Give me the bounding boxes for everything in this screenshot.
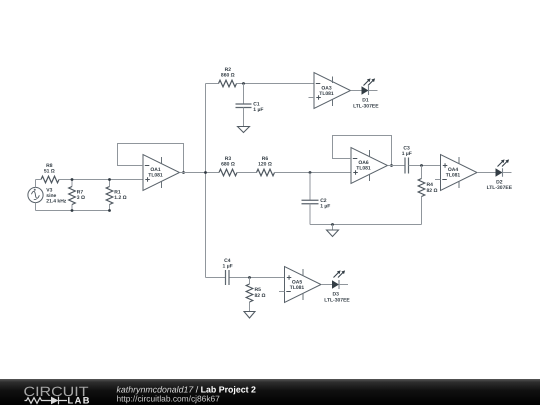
svg-text:1.2 Ω: 1.2 Ω bbox=[114, 195, 126, 201]
node OA6 output bbox=[390, 164, 393, 167]
D3 label bbox=[324, 292, 350, 304]
node C4/R5 bbox=[248, 276, 251, 279]
ground under R5 bbox=[244, 312, 255, 319]
op-amp OA4 bbox=[435, 155, 477, 191]
svg-text:TL081: TL081 bbox=[319, 91, 334, 97]
logo resistor zigzag bbox=[25, 398, 52, 404]
resistor R2 bbox=[219, 80, 237, 87]
node bbox=[71, 178, 74, 181]
OA4 label bbox=[446, 167, 461, 179]
wire OA1 feedback loop bbox=[118, 144, 184, 173]
R4 label bbox=[427, 182, 438, 194]
resistor R3 bbox=[219, 169, 237, 176]
wire OA6 feedback loop bbox=[333, 136, 392, 166]
svg-text:TL081: TL081 bbox=[290, 285, 305, 291]
svg-text:TL081: TL081 bbox=[446, 173, 461, 179]
wire top branch bbox=[206, 83, 315, 85]
wire bottom rail left bbox=[36, 210, 110, 212]
R3 label bbox=[221, 156, 235, 168]
ground under C2 rail bbox=[327, 225, 339, 237]
svg-text:LTL-307EE: LTL-307EE bbox=[487, 185, 513, 191]
svg-text:1 µF: 1 µF bbox=[402, 151, 412, 157]
OA3 label bbox=[319, 85, 334, 97]
node bbox=[71, 209, 74, 212]
node C3/R4 bbox=[420, 164, 423, 167]
node bbox=[108, 209, 111, 212]
C3 label bbox=[402, 146, 412, 158]
svg-text:LAB: LAB bbox=[68, 396, 91, 405]
svg-text:1 µF: 1 µF bbox=[320, 204, 330, 210]
capacitor C2 bbox=[302, 173, 319, 225]
wire OA3 output bbox=[351, 90, 362, 92]
svg-text:680 Ω: 680 Ω bbox=[221, 162, 235, 168]
op-amp OA6 bbox=[351, 148, 388, 184]
LED D2 bbox=[496, 159, 512, 176]
V3 value label bbox=[46, 187, 67, 204]
OA5 label bbox=[290, 279, 305, 291]
wire bottom branch bbox=[206, 277, 285, 279]
wire R6 to OA6 bbox=[275, 172, 352, 174]
node trunk/middle rail bbox=[204, 171, 207, 174]
wire OA5 output bbox=[321, 284, 332, 286]
node OA1 output bbox=[182, 171, 185, 174]
svg-text:120 Ω: 120 Ω bbox=[258, 162, 272, 168]
D1 label bbox=[353, 98, 379, 110]
wire top rail left bbox=[36, 179, 144, 181]
D2 label bbox=[487, 179, 513, 191]
resistor R5 bbox=[246, 278, 253, 312]
footer bar bbox=[0, 379, 540, 405]
op-amp OA1 bbox=[143, 155, 180, 191]
LED D1 bbox=[362, 78, 378, 95]
svg-text:http://circuitlab.com/cj86k67: http://circuitlab.com/cj86k67 bbox=[117, 394, 221, 404]
ground under C1 bbox=[238, 127, 250, 133]
svg-text:82 Ω: 82 Ω bbox=[255, 293, 266, 299]
R7 label bbox=[77, 189, 85, 201]
R6 label bbox=[258, 156, 272, 168]
wire OA4 output bbox=[477, 172, 496, 174]
svg-text:82 Ω: 82 Ω bbox=[427, 188, 438, 194]
voltage source V3 bbox=[28, 180, 43, 211]
resistor R8 bbox=[41, 176, 59, 183]
wire between R3 R6 bbox=[237, 172, 257, 174]
svg-text:1 µF: 1 µF bbox=[253, 107, 263, 113]
capacitor C3 bbox=[405, 158, 441, 174]
OA1 label bbox=[148, 167, 163, 179]
C2 label bbox=[320, 198, 330, 210]
resistor R1 bbox=[106, 180, 113, 211]
svg-text:LTL-307EE: LTL-307EE bbox=[324, 297, 350, 303]
node C2 tap bbox=[309, 171, 312, 174]
svg-text:TL081: TL081 bbox=[148, 173, 163, 179]
svg-text:3 Ω: 3 Ω bbox=[77, 195, 85, 201]
node ground tap bbox=[331, 223, 334, 226]
svg-text:51 Ω: 51 Ω bbox=[44, 169, 55, 175]
wire vertical trunk bbox=[205, 84, 207, 278]
svg-text:LTL-307EE: LTL-307EE bbox=[353, 103, 379, 109]
R1 label bbox=[114, 189, 126, 201]
svg-text:21.4 kHz: 21.4 kHz bbox=[46, 199, 67, 205]
capacitor C1 bbox=[236, 84, 252, 127]
capacitor C4 bbox=[226, 270, 230, 285]
wire bottom of C2 to R4 bbox=[310, 224, 422, 226]
op-amp OA5 bbox=[279, 267, 321, 303]
node R2/C1 bbox=[242, 82, 245, 85]
C1 label bbox=[253, 102, 263, 113]
logo diode bbox=[51, 397, 59, 405]
resistor R4 bbox=[418, 166, 425, 225]
R5 label bbox=[255, 287, 266, 299]
wire OA6 output to C3 bbox=[388, 165, 406, 167]
LED D3 bbox=[332, 270, 348, 289]
R8 label bbox=[44, 163, 55, 175]
R2 label bbox=[221, 67, 235, 79]
svg-text:860 Ω: 860 Ω bbox=[221, 73, 235, 79]
wire OA1 output to middle rail bbox=[180, 172, 220, 174]
resistor R7 bbox=[69, 180, 76, 211]
svg-text:1 µF: 1 µF bbox=[223, 264, 233, 270]
OA6 label bbox=[356, 160, 371, 172]
node bbox=[108, 178, 111, 181]
C4 label bbox=[223, 258, 233, 270]
svg-text:TL081: TL081 bbox=[356, 165, 371, 171]
op-amp OA3 bbox=[309, 73, 351, 109]
resistor R6 bbox=[257, 169, 275, 176]
